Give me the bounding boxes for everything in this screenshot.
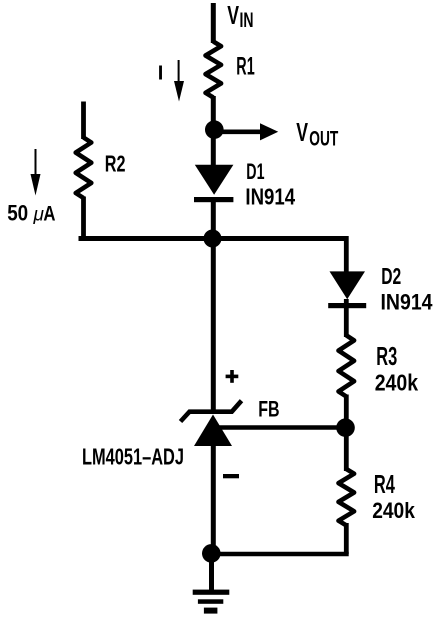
current arrow 50uA [7, 149, 55, 226]
svg-text:OUT: OUT [309, 127, 338, 150]
resistor R2 [76, 102, 126, 241]
op-amp U1 LM4051-ADJ shunt reference [82, 401, 242, 470]
wire R4 to bottom bus [344, 523, 349, 554]
svg-text:V: V [296, 117, 308, 147]
junction bus node [204, 230, 222, 248]
svg-text:R4: R4 [374, 471, 396, 499]
node VIN label [227, 0, 253, 32]
resistor R1 [206, 42, 255, 98]
wire R3 to FB node [344, 395, 349, 431]
svg-text:R2: R2 [105, 150, 126, 176]
resistor R3 240k [339, 335, 419, 396]
wire VIN top [211, 3, 216, 43]
wire bottom bus [212, 552, 349, 557]
resistor R4 240k [339, 469, 416, 525]
pin plus label [226, 370, 239, 383]
svg-text:IN: IN [240, 8, 254, 32]
svg-text:50: 50 [7, 201, 28, 226]
diode D1 IN914 [194, 159, 295, 210]
wire U1 to bottom node [211, 444, 216, 556]
svg-text:LM4051–ADJ: LM4051–ADJ [82, 444, 184, 470]
svg-text:D1: D1 [246, 159, 264, 184]
wire horizontal bus [79, 236, 347, 241]
wire D2 to R3 [344, 299, 349, 337]
junction FB node [336, 418, 355, 437]
wire R1 to node [211, 96, 216, 166]
svg-text:D2: D2 [381, 263, 401, 289]
svg-text:IN914: IN914 [381, 289, 434, 314]
ground [193, 590, 230, 614]
svg-text:FB: FB [258, 396, 279, 421]
svg-text:240k: 240k [375, 370, 419, 396]
svg-text:V: V [227, 0, 239, 30]
svg-text:R3: R3 [376, 343, 397, 371]
svg-text:IN914: IN914 [245, 184, 295, 210]
svg-text:240k: 240k [372, 498, 415, 523]
wire bus to D2 [344, 236, 349, 273]
pin minus label [223, 474, 239, 478]
wire FB [213, 425, 346, 430]
wire D1 to bus [211, 200, 216, 240]
svg-text:A: A [43, 203, 55, 226]
wire bus to U1 [211, 237, 216, 413]
wire FB node to R4 [344, 425, 349, 471]
diode D2 IN914 [328, 263, 433, 314]
svg-text:R1: R1 [236, 53, 254, 81]
junction bottom node [202, 544, 221, 563]
wire node to ground [209, 553, 214, 592]
svg-text:I: I [158, 62, 164, 84]
node VOUT arrow and label [216, 117, 338, 150]
junction node VOUT [205, 120, 224, 139]
current arrow I [158, 60, 184, 102]
